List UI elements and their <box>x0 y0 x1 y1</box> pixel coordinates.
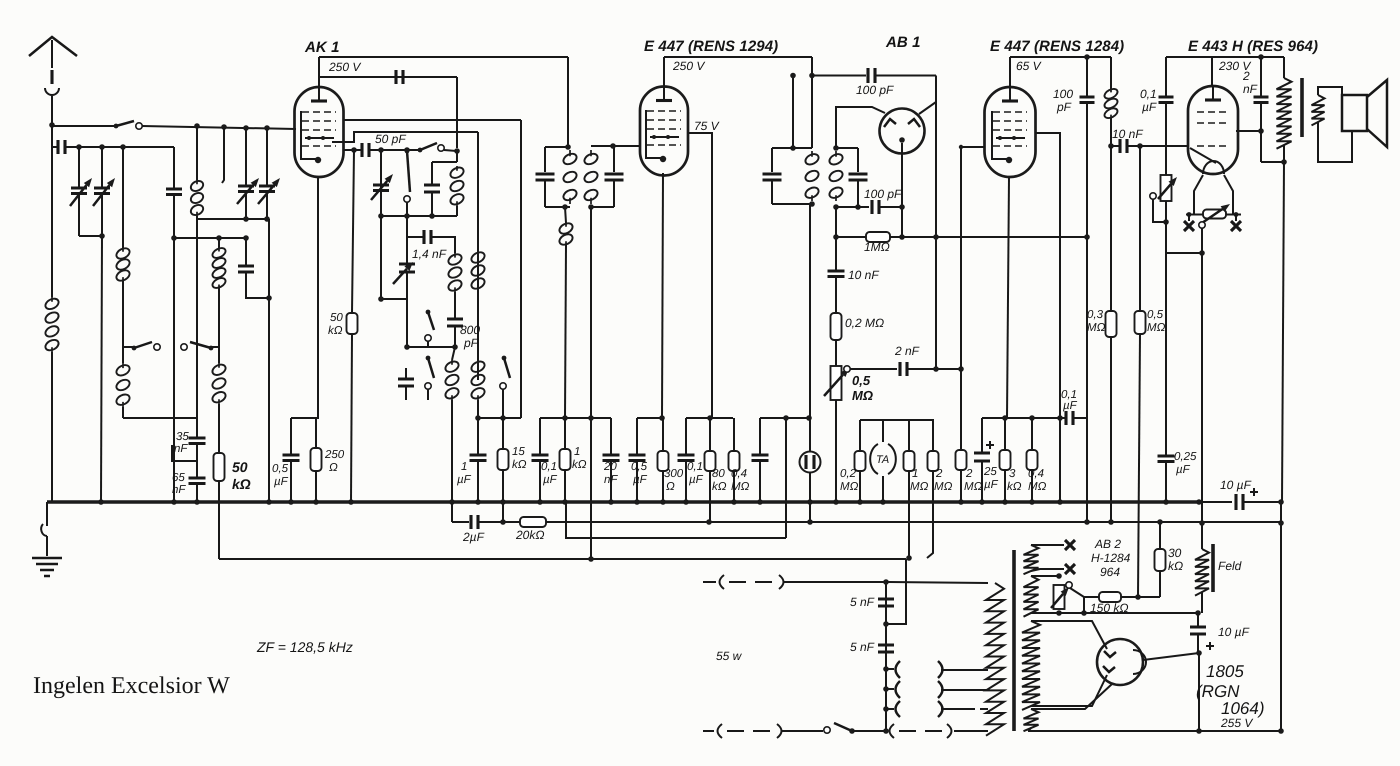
svg-text:0,3: 0,3 <box>1087 309 1104 321</box>
wire 1M mid low <box>908 471 910 558</box>
wire E4472 cathode <box>1007 177 1009 418</box>
wire column x123 gap <box>122 347 124 363</box>
tube E447 RENS1284 <box>985 87 1036 177</box>
wire AK1 cathode down <box>291 177 318 418</box>
wire y418 F <box>982 417 1060 419</box>
capacitor 35nF <box>189 438 206 444</box>
capacitor variable C1 <box>71 188 87 194</box>
switch S2a band <box>132 346 137 351</box>
IF1 secondary tank <box>591 146 614 207</box>
wire x793 link <box>792 76 794 149</box>
svg-text:µF: µF <box>543 474 558 486</box>
capacitor 2nF <box>900 362 907 376</box>
node IF2 sec <box>833 145 839 151</box>
wire y418 E <box>760 417 809 419</box>
wire TA bracket <box>860 420 883 442</box>
wire AB1 right lead <box>919 102 936 114</box>
wire 10uF low <box>1197 634 1199 653</box>
wire column x123 top <box>122 147 124 248</box>
node IF2 pri bottom <box>809 201 815 207</box>
capacitor variable osc <box>373 185 389 191</box>
node bias contact <box>1163 219 1169 225</box>
svg-text:µF: µF <box>1176 464 1191 476</box>
wire sel stub2 <box>886 688 894 690</box>
wire y418 C <box>637 417 662 419</box>
wire 3k low <box>1004 470 1006 502</box>
svg-text:MΩ: MΩ <box>964 481 983 493</box>
svg-text:pF: pF <box>463 336 479 350</box>
coil L3 <box>122 363 124 407</box>
wire x521 down <box>520 120 522 418</box>
E443H grid diagonal <box>1190 148 1216 163</box>
capacitor IF2 pri <box>763 174 782 180</box>
switch S2b band <box>209 346 214 351</box>
wire IF1 sec bottom drop <box>590 207 592 418</box>
wire 65nF to bus <box>196 484 198 502</box>
svg-text:10 nF: 10 nF <box>1112 127 1143 141</box>
node bias <box>1199 250 1205 256</box>
wire 05b top <box>636 418 638 455</box>
switch mains <box>850 729 855 734</box>
capacitor 10nF coupling <box>1120 139 1127 153</box>
wire 15k low <box>502 470 504 522</box>
svg-text:MΩ: MΩ <box>1147 322 1166 334</box>
node yoke ends <box>1187 212 1192 217</box>
svg-text:25: 25 <box>983 466 997 478</box>
wire sel lead1 <box>941 669 988 671</box>
wire column x123 mid <box>122 281 124 347</box>
svg-text:pF: pF <box>1056 100 1072 114</box>
svg-text:µF: µF <box>633 474 648 486</box>
capacitor 0,1µF <box>532 455 549 461</box>
svg-text:0,5: 0,5 <box>272 463 289 475</box>
capacitor 0,1µF bias <box>1159 97 1174 103</box>
node grid line drops <box>194 123 200 129</box>
wire x936 down <box>935 76 937 370</box>
coil osc L8 <box>454 253 456 292</box>
coil L2 <box>122 248 124 281</box>
wire sel stub1 <box>886 668 894 670</box>
wire padder top <box>245 238 247 266</box>
wire hum wiper <box>1070 588 1084 597</box>
wire 10nF right <box>1127 145 1187 147</box>
wire primary top <box>1283 57 1285 78</box>
arrow bias pot <box>1158 184 1171 199</box>
wire osc tank top <box>432 161 457 163</box>
capacitor 0,1µF b <box>678 455 695 461</box>
svg-text:Feld: Feld <box>1218 559 1242 573</box>
svg-text:E 447 (RENS 1294): E 447 (RENS 1294) <box>644 38 778 55</box>
capacitor C3 <box>166 189 182 195</box>
wire right riser <box>1280 502 1282 731</box>
mains plug lower right <box>890 724 989 738</box>
wire 1k low <box>564 470 566 502</box>
svg-text:50: 50 <box>232 459 248 475</box>
wire sec top <box>1318 87 1342 95</box>
svg-text:800: 800 <box>460 323 480 337</box>
wire 2M mid low <box>927 471 933 558</box>
wire anode to primary <box>1261 161 1284 163</box>
svg-text:1: 1 <box>912 468 918 480</box>
capacitor 100pF 2 <box>1080 97 1095 103</box>
wire 150k lead <box>1084 596 1099 598</box>
x mark filament left <box>1184 221 1194 231</box>
capacitor 50pF <box>362 143 369 157</box>
wire trimmer chain low <box>381 216 407 299</box>
coil osc L11 <box>477 360 479 400</box>
node y418A <box>475 415 481 421</box>
zigzag Feld field coil <box>1195 549 1209 596</box>
wire L2 corner <box>451 502 453 522</box>
wire 3k top <box>1004 418 1006 450</box>
zigzag heater winding 2 <box>1024 576 1039 617</box>
wire L2 a <box>452 521 469 523</box>
wire choke low <box>1110 118 1112 146</box>
svg-text:nF: nF <box>172 484 186 496</box>
wire mains sw lead <box>820 730 823 732</box>
coil IF1 secondary <box>590 150 592 204</box>
wire bottom rail <box>1028 730 1281 732</box>
wire x568 down <box>567 57 569 147</box>
node x812 y75 <box>809 73 815 79</box>
node rect out <box>1196 650 1202 656</box>
arrow varcap C4 <box>237 185 253 204</box>
capacitor variable tuning C4 <box>238 186 254 192</box>
capacitor 0,5µF c <box>752 455 769 461</box>
wire E4472 screen <box>1035 133 1060 418</box>
wire x219 gap <box>218 347 220 363</box>
ground symbol <box>46 502 48 526</box>
svg-text:20: 20 <box>603 461 617 473</box>
coil osc L10 <box>451 360 453 400</box>
wire rect cathode <box>1143 653 1199 660</box>
svg-text:kΩ: kΩ <box>712 481 727 493</box>
wire x478 to 418 <box>477 400 479 418</box>
arrow varcap C1 <box>70 185 86 206</box>
svg-text:kΩ: kΩ <box>572 459 587 471</box>
resistor 50kΩ wave trap <box>214 453 225 481</box>
node 10nF right <box>1137 143 1143 149</box>
zigzag output secondary <box>1312 95 1325 125</box>
wire 2nF right <box>907 368 961 370</box>
tube AB1 duodiode <box>880 109 925 154</box>
svg-text:µF: µF <box>274 476 289 488</box>
wire x1164 low <box>1165 463 1167 502</box>
wire x836 down2 <box>835 278 837 313</box>
svg-text:kΩ: kΩ <box>512 459 527 471</box>
capacitor 0,5µF cathode <box>283 455 300 461</box>
wire L4 <box>219 558 906 560</box>
wire E443H grid <box>1140 145 1188 147</box>
wire sel lead3 <box>941 708 975 710</box>
resistor 0,2MΩ det <box>831 313 842 340</box>
wire 20nF low <box>610 461 612 502</box>
wire varcap1 bottom <box>78 194 80 236</box>
capacitor 100pF det <box>872 200 879 214</box>
node mains riser <box>883 579 889 585</box>
resistor 0,4MΩ 2 <box>1027 450 1038 470</box>
node x1060 418 <box>1057 415 1063 421</box>
wire sel stub3 <box>886 708 894 710</box>
svg-text:MΩ: MΩ <box>852 388 873 403</box>
coil HF choke <box>1110 89 1112 118</box>
wire bias pot low <box>1166 201 1202 253</box>
wire S5 low <box>427 341 429 347</box>
wire HV top <box>1031 621 1107 649</box>
wire x452 to bus <box>451 400 453 502</box>
wire y418 D <box>686 417 733 419</box>
potentiometer 0,5MΩ volume <box>831 366 842 400</box>
wire 1k top <box>564 418 566 449</box>
node L4 <box>588 556 594 562</box>
wire pot to bus <box>835 400 837 502</box>
capacitor 800pF <box>447 319 463 326</box>
node bottom rail <box>1196 728 1202 734</box>
wire 100pF line <box>812 75 866 77</box>
IF2 left tank <box>772 148 812 204</box>
wire rail E443H <box>1166 56 1284 58</box>
wire varcap1 top <box>78 147 80 188</box>
wire hum to bias <box>1201 228 1203 253</box>
svg-text:E 443 H (RES 964): E 443 H (RES 964) <box>1188 38 1318 55</box>
wire coupling line y147 <box>52 146 58 148</box>
wire tank bottom y219 <box>197 218 269 220</box>
wire x381 drop <box>380 150 382 216</box>
svg-text:65 V: 65 V <box>1016 59 1042 73</box>
wire y418 B <box>540 417 611 419</box>
wire E4472 grid entry <box>961 146 985 148</box>
switch S5 <box>426 310 431 315</box>
svg-text:20kΩ: 20kΩ <box>515 528 544 542</box>
wire y418 left link <box>123 417 197 419</box>
wire AVC line b <box>890 236 1087 238</box>
wire 01b top <box>685 418 687 455</box>
wire primary low <box>1283 145 1285 162</box>
wire 01uF low <box>539 461 541 502</box>
wire y237 right <box>431 237 455 253</box>
zigzag rectifier filament winding <box>1024 709 1039 731</box>
zigzag output primary <box>1277 78 1292 149</box>
wire 800pF low <box>454 326 456 347</box>
svg-text:1805: 1805 <box>1206 662 1244 681</box>
capacitor osc pad2 <box>398 379 414 386</box>
wire HV low <box>1031 675 1107 706</box>
capacitor IF1 sec <box>605 174 624 180</box>
wire switch row stub <box>123 346 134 348</box>
bus main earth line <box>47 500 1199 504</box>
wire S7 stub <box>502 389 504 418</box>
wire Feld low <box>1201 592 1203 613</box>
coil antenna L1 <box>51 297 53 352</box>
svg-text:10 nF: 10 nF <box>848 268 879 282</box>
wire bias pot contact <box>1153 199 1166 222</box>
svg-text:2: 2 <box>935 468 943 480</box>
coil IF1 primary <box>569 150 571 204</box>
filament yoke E443H <box>1186 175 1241 215</box>
arrow padder trim <box>393 269 407 284</box>
node y418F <box>1002 415 1008 421</box>
wire 50pF left lead <box>354 149 362 151</box>
wire L10 top <box>452 347 455 360</box>
coil osc L7 <box>456 166 458 206</box>
phono jack <box>800 452 821 473</box>
wire grid leak low <box>351 334 352 502</box>
resistor 2MΩ b <box>956 450 967 470</box>
svg-text:kΩ: kΩ <box>1168 559 1183 573</box>
resistor 2MΩ mid <box>928 451 939 471</box>
wire osc tank drop <box>456 206 458 216</box>
node y418E <box>783 415 789 421</box>
svg-text:Ingelen Excelsior W: Ingelen Excelsior W <box>33 673 230 699</box>
wire 05c low <box>759 461 761 502</box>
wire column x174 low <box>173 194 175 502</box>
svg-text:250: 250 <box>324 449 345 461</box>
wire x1283 to bus <box>1282 162 1284 502</box>
node 50pF left <box>351 147 357 153</box>
wire rect to rail <box>1198 653 1200 731</box>
capacitor 100pF top <box>868 68 875 83</box>
wire rail E4472 <box>1010 56 1111 58</box>
wire antenna column down <box>51 125 53 297</box>
wire hw1 low <box>1031 569 1064 571</box>
node mains switch <box>849 728 855 734</box>
wire 01c top <box>1165 57 1167 97</box>
node rail 2nF <box>1258 54 1264 60</box>
coil IF2 secondary <box>835 151 837 201</box>
wire x219 mid <box>218 288 220 347</box>
wire bias to 10uF <box>1197 613 1199 627</box>
speaker <box>1342 95 1367 131</box>
svg-text:250 V: 250 V <box>328 60 361 74</box>
wire grid leak top <box>352 150 354 313</box>
wire 35/65 tap <box>172 445 197 461</box>
resistor 0,3MΩ <box>1106 311 1117 337</box>
wire x455 between <box>454 292 456 319</box>
svg-text:MΩ: MΩ <box>840 481 859 493</box>
potentiometer hum balance <box>1054 585 1065 609</box>
svg-text:15: 15 <box>512 446 525 458</box>
svg-text:100 pF: 100 pF <box>864 187 902 201</box>
wire x1139 low <box>1138 334 1140 597</box>
switch S4 <box>405 149 410 154</box>
svg-text:2: 2 <box>1242 69 1250 83</box>
wire trimmer chain <box>406 237 408 264</box>
wire varcap3 top <box>245 128 247 186</box>
wire 150k right <box>1121 596 1160 598</box>
node IF1 top <box>565 144 571 150</box>
wire 2M mid top <box>909 420 933 451</box>
wire 15k top <box>502 418 504 449</box>
capacitor 5nF lower <box>878 645 894 652</box>
svg-text:TA: TA <box>876 454 889 466</box>
capacitor variable tuning C5 <box>259 186 275 192</box>
wire x836 down3 <box>835 340 837 366</box>
x mark dial lamp b <box>1065 564 1075 574</box>
wire x457 down <box>456 77 458 148</box>
wire x836 down1 <box>835 207 837 271</box>
svg-text:µF: µF <box>1142 100 1157 114</box>
wire E447 cathode <box>662 173 663 418</box>
capacitor 10µF psu <box>1190 627 1206 634</box>
wire antenna coil to bus <box>51 352 53 502</box>
wire 05uF bottom <box>290 461 292 502</box>
resistor 30kΩ <box>1155 549 1166 571</box>
wire varcap4 bottom <box>266 192 268 218</box>
resistor 1MΩ mid <box>904 451 915 471</box>
node y216 <box>378 213 384 219</box>
wire S6 stub <box>427 389 429 400</box>
svg-text:250 V: 250 V <box>672 59 705 73</box>
IF1 primary tank <box>545 147 570 207</box>
wire column x174 <box>173 147 175 189</box>
wire 300R top <box>662 418 664 451</box>
svg-text:55 w: 55 w <box>716 649 743 663</box>
wire choke top <box>1110 57 1112 89</box>
svg-text:nF: nF <box>174 443 188 455</box>
wire AK1 screen line y120 <box>344 119 521 121</box>
svg-text:0,5: 0,5 <box>852 373 871 388</box>
svg-text:0,4: 0,4 <box>1028 468 1044 480</box>
wire L2 c <box>546 521 1281 523</box>
wire AB1 left lead <box>836 107 885 148</box>
wire 10nF left <box>1111 145 1120 147</box>
node 2nF <box>933 366 939 372</box>
node y151 <box>378 147 384 153</box>
wire hw2 top <box>1031 575 1059 577</box>
node y299 <box>378 296 384 302</box>
wire det line y207b <box>879 206 902 208</box>
resistor 50kΩ grid leak <box>347 313 358 334</box>
wire phono low <box>809 472 811 522</box>
svg-text:2: 2 <box>965 468 973 480</box>
node IF1 sec bottom <box>588 204 594 210</box>
wire y347 link <box>407 346 455 348</box>
wire x1202 down <box>1201 253 1203 549</box>
wire y418 cath link <box>291 417 316 419</box>
connector TA <box>870 444 896 474</box>
wire 250R bottom <box>315 471 317 502</box>
core Feld <box>1211 544 1215 592</box>
node x269 y298 <box>266 295 272 301</box>
capacitor 10nF det <box>828 271 845 277</box>
wire pad2 up <box>405 368 407 379</box>
wire x1087 avc <box>1086 57 1088 97</box>
wire varcap3 bottom <box>245 192 247 218</box>
zigzag heater winding 1 <box>1024 545 1039 574</box>
svg-text:kΩ: kΩ <box>328 325 343 337</box>
svg-text:964: 964 <box>1100 565 1120 579</box>
svg-text:µF: µF <box>1063 400 1078 412</box>
wire IF1 pri drop a <box>565 207 566 223</box>
node antenna junction <box>49 122 55 128</box>
svg-text:kΩ: kΩ <box>1007 481 1022 493</box>
wire 1uF top <box>477 418 479 455</box>
svg-text:2µF: 2µF <box>462 530 485 544</box>
svg-text:2 nF: 2 nF <box>894 344 920 358</box>
wire rail E447 <box>664 56 812 58</box>
wire 2nF drop <box>1260 57 1262 97</box>
capacitor 0,5µF b <box>629 455 646 461</box>
svg-text:0,5: 0,5 <box>631 461 648 473</box>
svg-text:35: 35 <box>176 431 189 443</box>
node y418C <box>659 415 665 421</box>
wire 01c low <box>1165 104 1167 175</box>
IF2 right tank <box>836 148 858 207</box>
svg-text:150 kΩ: 150 kΩ <box>1090 601 1128 615</box>
svg-text:Ω: Ω <box>329 462 338 474</box>
wire filwind low <box>1028 728 1031 731</box>
wire 05uF top <box>290 418 292 455</box>
